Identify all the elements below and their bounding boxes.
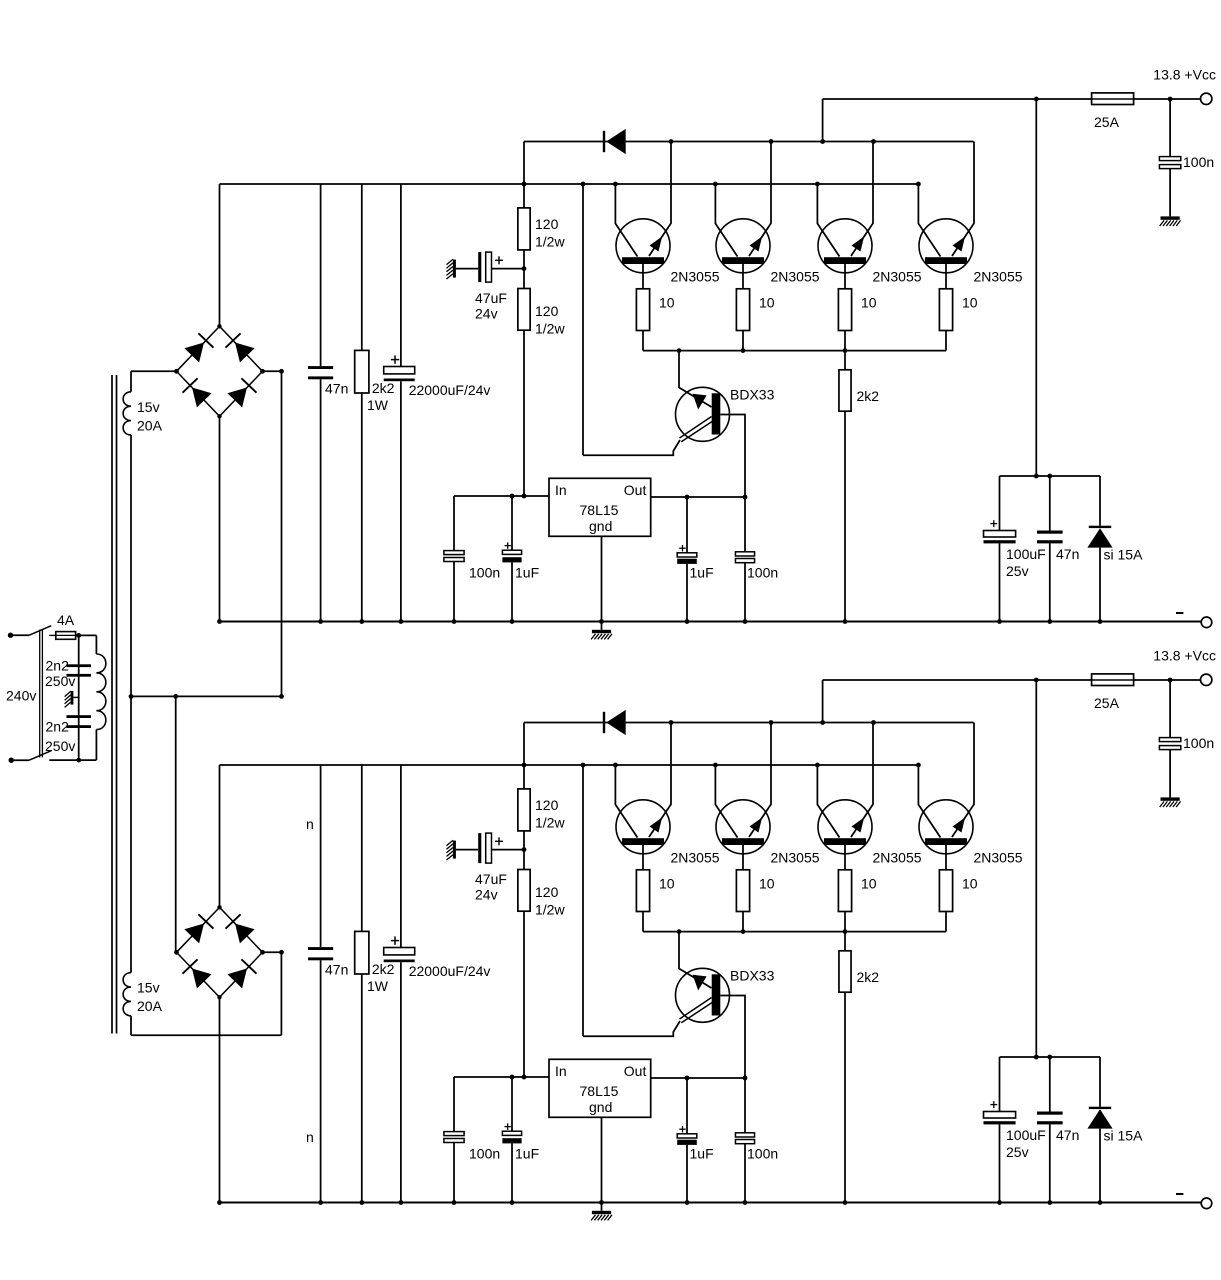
node bridge AC right (ch2) [260, 950, 265, 955]
svg-text:4A: 4A [57, 612, 75, 628]
node U1 gnd on - rail (ch1) [599, 619, 604, 624]
fuse FU1 25A (ch1) [1092, 93, 1134, 130]
node C6 on - rail (ch2) [685, 1200, 690, 1205]
svg-text:1uF: 1uF [515, 565, 539, 581]
node Q1 emitter on diode line (ch2) [669, 720, 674, 725]
capacitor C11 2n2 250v [45, 715, 91, 754]
ground at C5 47uF (ch2) [453, 841, 456, 859]
node C6 on - rail (ch1) [685, 619, 690, 624]
svg-text:25v: 25v [1006, 563, 1029, 579]
svg-text:100n: 100n [747, 1146, 778, 1162]
resistor R7 2k2 1W (ch2) [355, 765, 395, 1203]
node bridge right lead corner (ch1) [279, 369, 284, 374]
node C7 on - rail (ch1) [743, 619, 748, 624]
ground at cap chain midpoint [65, 691, 79, 707]
terminal minus (ch2) [1201, 1198, 1212, 1209]
wire bridge1 AC right riser [281, 371, 283, 696]
svg-text:In: In [555, 482, 567, 498]
wire Q1 emitter-resistor to junction rail (ch1) [642, 331, 644, 351]
capacitor C_in 100n (ch2) [444, 1077, 500, 1203]
node C9 on - rail (ch2) [1047, 1200, 1052, 1205]
node sec join right end [279, 694, 284, 699]
node riser joins (ch2) [1034, 1055, 1039, 1060]
wire bridge + riser (ch1) [219, 184, 221, 326]
svg-text:250v: 250v [45, 673, 75, 689]
wire U1 gnd lead (ch1) [601, 536, 603, 630]
capacitor C9 47n (ch2) [1037, 1057, 1079, 1203]
node - rail corner (ch1) [217, 619, 222, 624]
node Q4 base on +rail (ch2) [916, 763, 921, 768]
node Q2 on junction rail (ch1) [741, 348, 746, 353]
svg-text:2k2: 2k2 [857, 388, 880, 404]
capacitor C1 47n (ch2) [308, 765, 348, 1203]
svg-text:100n: 100n [469, 1146, 500, 1162]
wire R6 to regulator In (ch1) [523, 330, 525, 496]
svg-text:120: 120 [535, 884, 559, 900]
svg-text:47n: 47n [1056, 1127, 1079, 1143]
terminal +Vcc (ch1) [1201, 93, 1212, 104]
wire In line (ch2) [454, 1076, 549, 1078]
svg-text:20A: 20A [137, 418, 163, 434]
wire mains top [11, 634, 30, 636]
capacitor C4 1uF (ch2) [502, 1077, 539, 1203]
winding T1 secondary 2 (15v 20A) [123, 696, 162, 1035]
node bridge AC left (ch2) [174, 950, 179, 955]
svg-text:2N3055: 2N3055 [974, 269, 1023, 285]
node fuse-capchain [76, 633, 81, 638]
svg-text:2N3055: 2N3055 [873, 269, 922, 285]
wire diode line (ch2) [524, 722, 974, 724]
capacitor C7 100n (ch2) [735, 1078, 778, 1203]
diode D2 si 15A (ch2) [1087, 1057, 1143, 1203]
wire secondary join line [131, 695, 282, 697]
wire left riser from + rail (ch1) [582, 184, 584, 455]
svg-text:24v: 24v [475, 887, 498, 903]
node left riser on + rail (ch2) [581, 763, 586, 768]
node riser-diode line (ch2) [820, 720, 825, 725]
node bridge + vertex (ch2) [217, 905, 221, 909]
svg-text:2N3055: 2N3055 [873, 850, 922, 866]
switch SW1 blade top [29, 626, 51, 636]
capacitor C7 100n (ch1) [735, 497, 778, 622]
node bridge right lead corner (ch2) [279, 950, 284, 955]
rectifier bridge BR1 (ch2) [177, 907, 263, 997]
node Q2 on junction rail (ch2) [741, 929, 746, 934]
wire join tee to bridge2 AC left [175, 696, 177, 952]
wire junction rail (ch2) [643, 931, 946, 933]
resistor R8 2k2 (ch1) [839, 351, 879, 622]
node Q3 emitter on diode line (ch2) [871, 720, 876, 725]
ground at C3 (ch2) [1161, 797, 1180, 800]
wire Q5 collector to Out node (ch1) [720, 415, 745, 498]
svg-text:100uF: 100uF [1006, 1127, 1046, 1143]
node C1 on - rail (ch1) [318, 619, 323, 624]
resistor R6 120 1/2w (ch2) [518, 870, 566, 918]
svg-text:100n: 100n [1183, 154, 1214, 170]
wire Q2 emitter-resistor to junction rail (ch2) [742, 912, 744, 932]
wire output caps top line (ch1) [1000, 475, 1101, 477]
terminal mains top [8, 633, 13, 638]
svg-text:78L15: 78L15 [580, 502, 619, 518]
node riser joins (ch1) [1034, 474, 1039, 479]
wire riser to 120 resistors (ch2) [523, 723, 525, 789]
node riser-diode line (ch1) [820, 139, 825, 144]
resistor R1 10 (ch1) [636, 289, 674, 331]
node C9 tap (ch1) [1047, 474, 1052, 479]
capacitor C3 100n output filter (ch1) [1159, 99, 1214, 216]
fuse FU1 25A (ch2) [1092, 674, 1134, 711]
node top line to output caps (ch2) [1034, 678, 1039, 683]
capacitor C1 47n (ch1) [308, 184, 348, 622]
regulator U1 78L15 (ch1) [549, 478, 651, 536]
transistor Q2 2N3055 (ch1) [715, 142, 771, 289]
resistor R6 120 1/2w (ch1) [518, 289, 566, 337]
wire Q5 collector to Out node (ch2) [720, 996, 745, 1079]
resistor R8 2k2 (ch2) [839, 932, 879, 1203]
transistor Q4 2N3055 (ch2) [918, 723, 974, 870]
wire output caps riser (ch1) [1035, 99, 1037, 476]
capacitor C5 47uF 24v (ch2) [456, 833, 524, 902]
switch SW1 linkage [39, 630, 41, 758]
svg-text:2N3055: 2N3055 [771, 850, 820, 866]
wire In line (ch1) [454, 495, 549, 497]
node C4 on In line (ch1) [510, 494, 515, 499]
wire sec1 top to bridge1 AC left [131, 370, 177, 372]
node C7 on - rail (ch2) [743, 1200, 748, 1205]
svg-text:22000uF/24v: 22000uF/24v [409, 382, 491, 398]
svg-text:100n: 100n [469, 565, 500, 581]
node 47uF tap (ch2) [522, 847, 527, 852]
svg-text:120: 120 [535, 303, 559, 319]
node bridge AC right (ch1) [260, 369, 265, 374]
svg-text:120: 120 [535, 216, 559, 232]
node Out-collector junction (ch2) [743, 1076, 748, 1081]
winding T1 primary [79, 635, 106, 760]
node C2 on - rail (ch2) [399, 1200, 404, 1205]
node bridge AC left (ch1) [174, 369, 179, 374]
svg-text:250v: 250v [45, 738, 75, 754]
rectifier bridge BR1 (ch1) [177, 326, 263, 416]
svg-text:10: 10 [659, 876, 675, 892]
node C3 on top line (ch1) [1168, 97, 1173, 102]
svg-text:2k2: 2k2 [372, 961, 395, 977]
wire top line (ch2) [823, 679, 1201, 681]
wire Q4 emitter-resistor to junction rail (ch2) [945, 912, 947, 932]
wire primary cap chain [78, 635, 80, 760]
resistor R4 10 (ch2) [939, 870, 977, 912]
svg-text:n: n [306, 816, 314, 832]
node C8 on - rail (ch2) [997, 1200, 1002, 1205]
svg-text:10: 10 [759, 295, 775, 311]
wire Q1 emitter-resistor to junction rail (ch2) [642, 912, 644, 932]
svg-text:24v: 24v [475, 306, 498, 322]
transistor Q2 2N3055 (ch2) [715, 723, 771, 870]
resistor R5 120 1/2w (ch1) [518, 208, 566, 250]
wire mains bottom [11, 759, 29, 761]
wire sec2 bottom run [131, 1034, 281, 1036]
svg-text:1/2w: 1/2w [535, 234, 565, 250]
node C8 on - rail (ch1) [997, 619, 1002, 624]
wire Q5 emitter to left riser (ch2) [583, 1021, 680, 1036]
wire between 120 resistors (ch2) [523, 831, 525, 870]
node R7 on - rail (ch1) [359, 619, 364, 624]
node 47uF tap (ch1) [522, 266, 527, 271]
svg-text:100uF: 100uF [1006, 546, 1046, 562]
wire bridge2 AC right riser [280, 952, 282, 1035]
svg-text:n: n [306, 1129, 314, 1145]
svg-text:si 15A: si 15A [1104, 1128, 1144, 1144]
svg-text:25A: 25A [1094, 114, 1120, 130]
wire bridge - riser (ch2) [219, 997, 221, 1202]
wire Q3 emitter-resistor to junction rail (ch1) [844, 331, 846, 351]
svg-text:20A: 20A [137, 998, 163, 1014]
wire - rail (ch2) [220, 1202, 1202, 1204]
diode D1 (ch2) [603, 712, 605, 733]
wire bridge right vertex lead (ch2) [263, 951, 282, 953]
svg-text:gnd: gnd [589, 1099, 612, 1115]
capacitor C2 22000uF/24v (ch2) [384, 765, 491, 1203]
winding T1 secondary 1 (15v 20A) [123, 371, 162, 696]
svg-text:2k2: 2k2 [372, 380, 395, 396]
svg-text:BDX33: BDX33 [730, 387, 775, 403]
node R8 on - rail (ch2) [843, 1200, 848, 1205]
wire bridge right vertex lead (ch1) [263, 370, 282, 372]
svg-text:In: In [555, 1063, 567, 1079]
svg-text:100n: 100n [1183, 735, 1214, 751]
node R8 on - rail (ch1) [843, 619, 848, 624]
node Q1 emitter on diode line (ch1) [669, 139, 674, 144]
svg-text:1/2w: 1/2w [535, 815, 565, 831]
wire between 120 resistors (ch1) [523, 250, 525, 289]
wire + rail from bridge (ch2) [220, 764, 919, 766]
node C1 on - rail (ch2) [318, 1200, 323, 1205]
svg-text:240v: 240v [6, 688, 36, 704]
node Q2 emitter on diode line (ch2) [769, 720, 774, 725]
node Q4 base on +rail (ch1) [916, 182, 921, 187]
node C4 on - rail (ch1) [510, 619, 515, 624]
wire bridge - riser (ch1) [219, 416, 221, 621]
node C6 on Out line (ch1) [685, 495, 690, 500]
svg-text:BDX33: BDX33 [730, 968, 775, 984]
terminal minus (ch1) [1201, 617, 1212, 628]
capacitor C8 100uF 25v (ch1) [984, 476, 1046, 622]
capacitor C8 100uF 25v (ch2) [984, 1057, 1046, 1203]
svg-text:25A: 25A [1094, 695, 1120, 711]
node sec join tee [173, 694, 178, 699]
node bridge - vertex (ch2) [217, 995, 221, 999]
svg-text:47uF: 47uF [475, 871, 507, 887]
wire Q3 emitter-resistor to junction rail (ch2) [844, 912, 846, 932]
ground at C3 (ch1) [1161, 216, 1180, 219]
capacitor C5 47uF 24v (ch1) [456, 252, 524, 321]
svg-text:10: 10 [962, 295, 978, 311]
diode D1 (ch1) [603, 131, 605, 152]
node C3 on top line (ch2) [1168, 678, 1173, 683]
transformer T1 core [111, 375, 113, 1034]
svg-text:25v: 25v [1006, 1144, 1029, 1160]
node C9 on - rail (ch1) [1047, 619, 1052, 624]
wire top line riser (ch2) [822, 680, 824, 723]
svg-text:10: 10 [861, 295, 877, 311]
svg-text:15v: 15v [137, 980, 160, 996]
terminal mains bottom [9, 758, 14, 763]
node riser on + rail (ch1) [522, 182, 527, 187]
svg-text:47n: 47n [1056, 546, 1079, 562]
ground at U1 (ch2) [592, 1211, 611, 1214]
svg-text:2N3055: 2N3055 [771, 269, 820, 285]
svg-text:120: 120 [535, 797, 559, 813]
wire Q2 emitter-resistor to junction rail (ch1) [742, 331, 744, 351]
diode D2 si 15A (ch1) [1087, 476, 1143, 622]
svg-text:15v: 15v [137, 399, 160, 415]
fuse F1 4A [49, 612, 78, 639]
svg-text:10: 10 [962, 876, 978, 892]
wire Q4 emitter-resistor to junction rail (ch1) [945, 331, 947, 351]
node top line to output caps (ch1) [1034, 97, 1039, 102]
wire R6 to regulator In (ch2) [523, 911, 525, 1077]
node Q3 base on +rail (ch1) [815, 182, 820, 187]
wire diode line (ch1) [524, 141, 974, 143]
wire + rail from bridge (ch1) [220, 183, 919, 185]
capacitor C6 1uF (ch2) [677, 1078, 713, 1203]
svg-text:13.8 +Vcc: 13.8 +Vcc [1153, 648, 1216, 664]
node left riser on + rail (ch1) [581, 182, 586, 187]
resistor R3 10 (ch2) [838, 870, 876, 912]
svg-text:1W: 1W [367, 978, 389, 994]
svg-text:2N3055: 2N3055 [671, 269, 720, 285]
svg-text:10: 10 [759, 876, 775, 892]
wire Out line (ch2) [651, 1077, 745, 1079]
svg-text:2N3055: 2N3055 [974, 850, 1023, 866]
svg-text:2N3055: 2N3055 [671, 850, 720, 866]
ground at U1 (ch1) [592, 630, 611, 633]
wire bridge + riser (ch2) [219, 765, 221, 907]
svg-text:1uF: 1uF [690, 1146, 714, 1162]
node - rail corner (ch2) [217, 1200, 222, 1205]
resistor R7 2k2 1W (ch1) [355, 184, 395, 622]
node Q1 base on +rail (ch1) [613, 182, 618, 187]
label minus (ch2) [1176, 1193, 1183, 1195]
capacitor C9 47n (ch1) [1037, 476, 1079, 622]
svg-text:47n: 47n [325, 962, 348, 978]
node riser on + rail (ch2) [522, 763, 527, 768]
node Q3/R8 on junction rail (ch2) [843, 929, 848, 934]
node BDX33 base tap (ch1) [677, 348, 682, 353]
wire junction rail (ch1) [643, 350, 946, 352]
capacitor C3 100n output filter (ch2) [1159, 680, 1214, 797]
node C4 on - rail (ch2) [510, 1200, 515, 1205]
node D2 on - rail (ch2) [1098, 1200, 1103, 1205]
capacitor C4 1uF (ch1) [502, 496, 539, 622]
terminal +Vcc (ch2) [1201, 674, 1212, 685]
node C_in on - rail (ch1) [452, 619, 457, 624]
svg-text:1uF: 1uF [515, 1146, 539, 1162]
node Q3 base on +rail (ch2) [815, 763, 820, 768]
wire primary bottom [49, 759, 78, 761]
transistor Q1 2N3055 (ch2) [615, 723, 671, 870]
svg-text:10: 10 [861, 876, 877, 892]
svg-text:100n: 100n [747, 565, 778, 581]
node C2 on - rail (ch1) [399, 619, 404, 624]
resistor R2 10 (ch2) [736, 870, 774, 912]
node R6 on In line (ch1) [522, 494, 527, 499]
node sec join at winding [129, 694, 134, 699]
svg-text:78L15: 78L15 [580, 1083, 619, 1099]
svg-text:Out: Out [624, 1063, 647, 1079]
wire U1 gnd lead (ch2) [601, 1117, 603, 1211]
wire Out line (ch1) [651, 496, 745, 498]
svg-text:22000uF/24v: 22000uF/24v [409, 963, 491, 979]
resistor R1 10 (ch2) [636, 870, 674, 912]
svg-text:10: 10 [659, 295, 675, 311]
node bridge + vertex (ch1) [217, 324, 221, 328]
svg-text:gnd: gnd [589, 518, 612, 534]
node C_in on - rail (ch2) [452, 1200, 457, 1205]
node Q2 base on +rail (ch1) [713, 182, 718, 187]
wire left riser from + rail (ch2) [582, 765, 584, 1036]
ground at C5 47uF (ch1) [453, 260, 456, 278]
resistor R5 120 1/2w (ch2) [518, 789, 566, 831]
transistor Q5 BDX33 (ch2) [676, 932, 775, 1023]
node Q3/R8 on junction rail (ch1) [843, 348, 848, 353]
resistor R2 10 (ch1) [736, 289, 774, 331]
wire - rail (ch1) [220, 621, 1202, 623]
node C6 on Out line (ch2) [685, 1076, 690, 1081]
wire riser to 120 resistors (ch1) [523, 142, 525, 208]
svg-text:2n2: 2n2 [46, 719, 70, 735]
svg-text:2n2: 2n2 [46, 658, 70, 674]
svg-text:si 15A: si 15A [1104, 547, 1144, 563]
regulator U1 78L15 (ch2) [549, 1059, 651, 1117]
switch SW1 blade bottom [29, 751, 51, 761]
svg-text:47uF: 47uF [475, 290, 507, 306]
node R7 on - rail (ch2) [359, 1200, 364, 1205]
wire top line (ch1) [823, 98, 1201, 100]
svg-text:Out: Out [624, 482, 647, 498]
capacitor C2 22000uF/24v (ch1) [384, 184, 491, 622]
node C4 on In line (ch2) [510, 1075, 515, 1080]
label minus (ch1) [1176, 612, 1183, 614]
svg-text:47n: 47n [325, 381, 348, 397]
node BDX33 base tap (ch2) [677, 929, 682, 934]
svg-text:1W: 1W [367, 397, 389, 413]
svg-text:1/2w: 1/2w [535, 321, 565, 337]
transistor Q1 2N3055 (ch1) [615, 142, 671, 289]
transistor Q3 2N3055 (ch1) [817, 142, 873, 289]
capacitor C6 1uF (ch1) [677, 497, 713, 622]
transistor Q4 2N3055 (ch1) [918, 142, 974, 289]
node Q3 emitter on diode line (ch1) [871, 139, 876, 144]
node U1 gnd on - rail (ch2) [599, 1200, 604, 1205]
svg-text:1uF: 1uF [690, 565, 714, 581]
transistor Q5 BDX33 (ch1) [676, 351, 775, 442]
resistor R3 10 (ch1) [838, 289, 876, 331]
node Q2 base on +rail (ch2) [713, 763, 718, 768]
node Q2 emitter on diode line (ch1) [769, 139, 774, 144]
capacitor C_in 100n (ch1) [444, 496, 500, 622]
node capchain bottom [76, 758, 81, 763]
svg-text:13.8 +Vcc: 13.8 +Vcc [1153, 67, 1216, 83]
node C9 tap (ch2) [1047, 1055, 1052, 1060]
wire output caps riser (ch2) [1035, 680, 1037, 1057]
svg-text:2k2: 2k2 [857, 969, 880, 985]
resistor R4 10 (ch1) [939, 289, 977, 331]
transistor Q3 2N3055 (ch2) [817, 723, 873, 870]
node Out-collector junction (ch1) [743, 495, 748, 500]
node R6 on In line (ch2) [522, 1075, 527, 1080]
wire Q5 emitter to left riser (ch1) [583, 440, 680, 455]
wire output caps top line (ch2) [1000, 1056, 1101, 1058]
